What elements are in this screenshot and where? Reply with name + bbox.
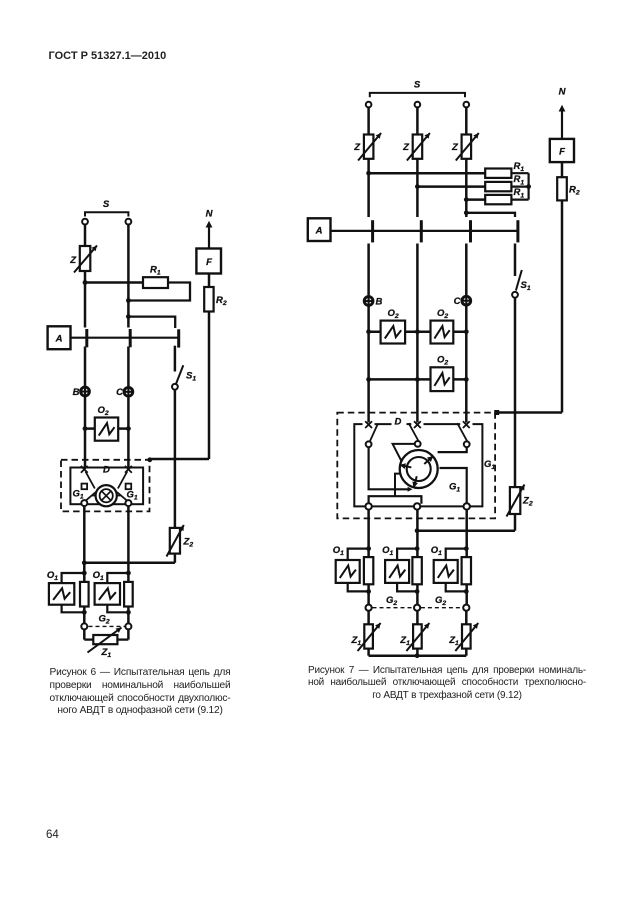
svg-text:D: D <box>395 417 402 428</box>
svg-text:S: S <box>103 199 110 210</box>
svg-text:Z2: Z2 <box>183 537 194 549</box>
svg-text:B: B <box>376 297 383 308</box>
svg-text:O1: O1 <box>333 545 344 557</box>
svg-text:G1: G1 <box>73 489 84 501</box>
svg-text:R1: R1 <box>514 161 525 173</box>
svg-text:O2: O2 <box>437 355 448 367</box>
svg-text:R1: R1 <box>514 174 525 186</box>
svg-text:N: N <box>206 209 214 220</box>
svg-text:O1: O1 <box>47 570 58 582</box>
svg-text:G2: G2 <box>435 595 446 607</box>
svg-text:O2: O2 <box>437 308 448 320</box>
svg-text:D: D <box>103 465 110 476</box>
svg-text:O1: O1 <box>382 545 393 557</box>
svg-text:Z: Z <box>451 142 459 153</box>
svg-text:O1: O1 <box>93 570 104 582</box>
svg-text:Z2: Z2 <box>522 496 533 508</box>
svg-text:S: S <box>414 80 421 91</box>
svg-text:R1: R1 <box>150 265 161 277</box>
svg-text:S1: S1 <box>521 280 531 292</box>
svg-text:Z1: Z1 <box>399 635 410 647</box>
svg-text:Z: Z <box>402 142 410 153</box>
svg-text:Z: Z <box>69 255 77 266</box>
svg-text:Z: Z <box>353 142 361 153</box>
svg-text:C: C <box>116 387 123 398</box>
svg-text:R2: R2 <box>569 185 580 197</box>
svg-text:B: B <box>73 387 80 398</box>
svg-text:O2: O2 <box>98 405 109 417</box>
svg-text:G2: G2 <box>99 614 110 626</box>
svg-text:F: F <box>206 257 212 268</box>
svg-text:G1: G1 <box>127 490 138 502</box>
svg-text:Z1: Z1 <box>351 635 362 647</box>
svg-text:S1: S1 <box>186 371 196 383</box>
svg-text:O1: O1 <box>431 545 442 557</box>
svg-text:F: F <box>559 147 565 158</box>
svg-text:Z1: Z1 <box>448 635 459 647</box>
svg-text:Z1: Z1 <box>101 647 112 659</box>
svg-text:G2: G2 <box>386 595 397 607</box>
svg-text:N: N <box>559 87 567 98</box>
svg-text:G1: G1 <box>484 459 495 471</box>
svg-text:R2: R2 <box>216 295 227 307</box>
svg-text:G1: G1 <box>449 482 460 494</box>
svg-text:C: C <box>454 296 461 307</box>
svg-text:A: A <box>55 334 63 345</box>
svg-text:R1: R1 <box>514 187 525 199</box>
svg-text:O2: O2 <box>388 308 399 320</box>
svg-text:A: A <box>315 226 323 237</box>
